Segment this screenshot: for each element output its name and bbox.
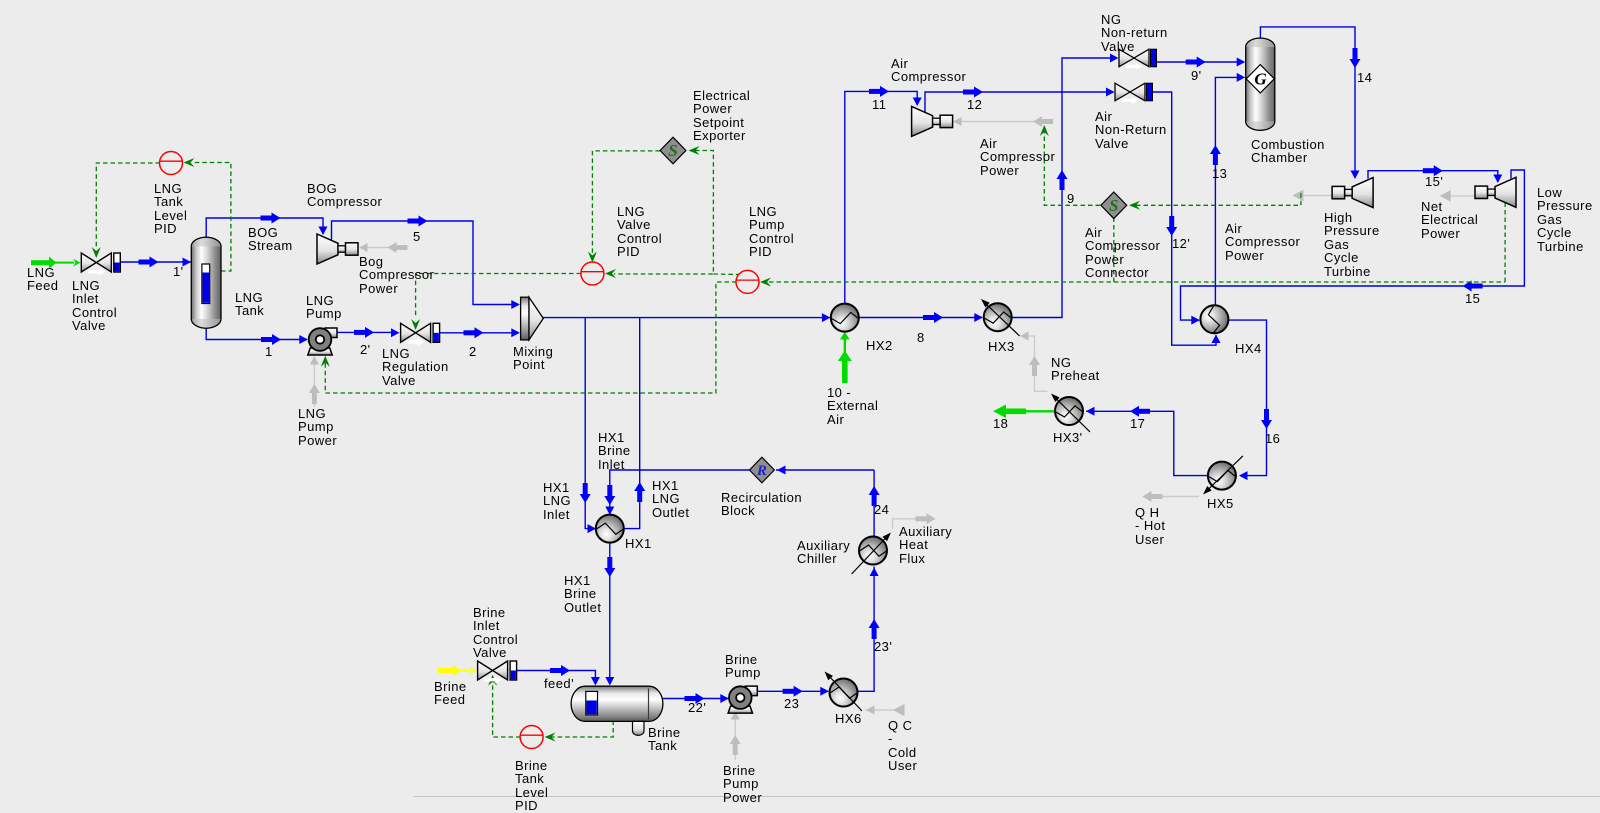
- LNG feed green arrow: [31, 257, 81, 269]
- wire stream 23 brine pump to HX6: [754, 690, 828, 692]
- connector Electrical Power Setpoint Exporter: [660, 137, 686, 164]
- wire LNG pump power: [313, 357, 315, 407]
- gray power lines: [314, 122, 1475, 761]
- wire stream 12' air NRV to HX4 bottom: [1153, 92, 1217, 345]
- wire NG preheat HX3' to HX3: [1021, 336, 1048, 391]
- wire stream 22' brine tank to brine pump: [663, 698, 728, 700]
- heat exchanger HX3': [1049, 391, 1090, 432]
- wire stream 9' NG NRV to combustion chamber: [1157, 61, 1240, 63]
- valve NG Non-return Valve: [1119, 49, 1157, 70]
- wire stream 5 BOG compressor to mixing point: [332, 221, 520, 305]
- bottom window separator line: [413, 796, 1600, 798]
- pump Brine Pump: [728, 686, 757, 713]
- wire BOG stream tank top to compressor: [206, 218, 323, 238]
- wire stream 14 combustion chamber to HP turbine: [1260, 27, 1355, 178]
- heat exchanger HX5: [1201, 456, 1243, 497]
- heat exchanger HX1: [596, 515, 624, 543]
- wire long power feedback line to pump PID: [769, 281, 1505, 283]
- valve LNG Inlet Control Valve: [81, 253, 120, 276]
- wire brine tank level PID output to brine valve: [493, 681, 521, 737]
- mixer Mixing Point: [521, 297, 544, 340]
- blue thick stream arrows: [139, 48, 1503, 704]
- turbine High Pressure Gas Cycle Turbine: [1332, 178, 1373, 208]
- wire stream 12 air compressor to air NRV: [925, 92, 1106, 112]
- vessel Combustion Chamber: [1246, 38, 1275, 130]
- controller LNG Pump Control PID: [736, 270, 759, 293]
- wire HX1 brine inlet from recirculation block: [610, 470, 750, 514]
- compressor BOG Compressor: [317, 234, 358, 264]
- controller Brine Tank Level PID: [520, 726, 543, 749]
- connector Recirculation Block: [750, 457, 775, 483]
- heat exchanger Auxiliary Chiller: [852, 530, 894, 574]
- wire LNG valve control PID output to regulation valve: [416, 274, 581, 319]
- wire HP turbine power: [1294, 195, 1332, 197]
- controller LNG Valve Control PID: [581, 262, 604, 285]
- connector Air Compressor Power Connector: [1101, 192, 1127, 219]
- wire air compressor power connector left branch: [1044, 131, 1100, 205]
- wire setpoint line junction to exporter and valve PID: [614, 151, 713, 275]
- wire stream 16 HX4 to HX5: [1229, 320, 1267, 476]
- wire stream 9 HX3 to NG NRV: [1012, 58, 1110, 318]
- wire stream 1 tank to pump: [206, 327, 307, 340]
- valve Brine Inlet Control Valve: [478, 661, 517, 684]
- heat exchanger HX3: [979, 297, 1020, 336]
- stream 18 green arrow: [993, 405, 1055, 419]
- wire LNG tank level to PID: [194, 163, 231, 272]
- wire stream 23' HX6 to auxiliary chiller: [858, 567, 874, 692]
- wire air compressor power connector right branch: [1136, 193, 1301, 205]
- wire setpoint exporter output to valve PID top: [592, 151, 660, 256]
- wire stream 2 regulation valve to mixing point: [439, 332, 520, 334]
- controller LNG Tank Level PID: [160, 152, 183, 175]
- vessel LNG Tank: [191, 237, 221, 328]
- wire LNG pump control PID output to pump: [325, 282, 736, 393]
- heat exchanger HX4: [1200, 305, 1228, 333]
- wire HX1 LNG outlet: [623, 318, 640, 529]
- vessel Brine Tank: [571, 686, 663, 735]
- wire stream 15' HP turbine to LP turbine: [1368, 171, 1498, 182]
- wire stream 8 HX2 to HX3: [859, 317, 982, 319]
- wire air compressor power: [954, 121, 1053, 123]
- wire Q C cold user to HX6: [865, 709, 905, 711]
- external air stream 10 green arrow: [838, 332, 852, 383]
- wire Bog compressor power: [360, 247, 406, 249]
- heat exchanger HX6: [822, 669, 862, 711]
- valve Air Non-Return Valve: [1115, 83, 1153, 104]
- wire brine tank level to PID: [549, 721, 613, 738]
- wire stream 11 HX2 top to air compressor: [845, 91, 917, 303]
- compressor Air Compressor: [912, 106, 953, 136]
- green dashed control lines: [96, 131, 1505, 737]
- heat exchanger HX2: [831, 304, 859, 332]
- wire recirculation block input from auxiliary chiller: [776, 469, 874, 471]
- wire stream 2' pump to regulation valve: [337, 331, 391, 333]
- wire stream 17 HX5 to HX3': [1086, 411, 1207, 475]
- wire stream 13 HX4 top to combustion chamber: [1215, 77, 1239, 304]
- wire brine pump power: [734, 712, 736, 760]
- wire auxiliary chiller top to recirculation line: [873, 470, 875, 537]
- wire LNG tank level PID output to inlet valve: [96, 163, 160, 247]
- wire feed' brine valve to brine tank: [516, 671, 596, 685]
- svg-text:G: G: [1254, 70, 1267, 89]
- pump LNG Pump: [308, 328, 337, 355]
- wire HX1 LNG inlet: [585, 318, 595, 529]
- wire Q H hot user from HX5: [1144, 496, 1199, 498]
- wire stream 15 LP turbine to HX4: [1181, 170, 1525, 320]
- wire HX1 brine outlet to brine tank: [609, 542, 611, 684]
- small blue connection arrowheads: [183, 258, 192, 267]
- turbine Low Pressure Gas Cycle Turbine: [1475, 177, 1516, 207]
- wire mixing point outlet to HX2: [543, 317, 829, 319]
- valve LNG Regulation Valve: [401, 323, 440, 346]
- brine feed yellow arrow: [438, 665, 477, 677]
- wire auxiliary heat flux from chiller: [893, 519, 935, 529]
- wire net electrical power LP turbine: [1441, 195, 1476, 197]
- wire stream 1' valve to tank: [120, 261, 192, 263]
